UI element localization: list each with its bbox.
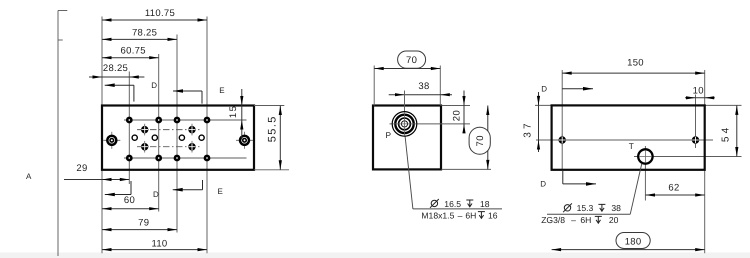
dim 38 xyxy=(389,94,452,96)
svg-text:–: – xyxy=(458,210,463,220)
ext right edge bottom xyxy=(704,170,706,253)
svg-text:M18x1.5: M18x1.5 xyxy=(421,210,454,220)
dim 54 (vertical right) xyxy=(736,105,738,156)
dim 15 (vertical, right of left view) xyxy=(241,89,243,140)
dim 78.25 xyxy=(102,38,177,40)
mounting hole right (counterbore) xyxy=(236,139,253,141)
dim 180 (balloon) xyxy=(552,249,705,251)
middle view block outline xyxy=(373,106,441,170)
svg-text:180: 180 xyxy=(625,236,642,247)
svg-text:D: D xyxy=(153,190,159,199)
port circle 2 xyxy=(152,135,157,140)
svg-text:29: 29 xyxy=(76,163,87,174)
svg-text:78.25: 78.25 xyxy=(132,27,157,38)
svg-text:ZG3/8: ZG3/8 xyxy=(541,215,565,225)
scanner shading band bottom xyxy=(0,253,750,258)
T crosshair tick xyxy=(634,156,657,158)
ext left edge bottom xyxy=(101,170,103,253)
right view block outline xyxy=(552,105,705,169)
svg-text:10: 10 xyxy=(693,86,704,97)
row line top holes xyxy=(124,119,247,121)
svg-text:15.3: 15.3 xyxy=(577,203,594,213)
callout T: dia 15.3 depth 38 / ZG3/8-6H depth 20 xyxy=(564,205,570,211)
ext right edge top xyxy=(704,70,706,105)
ext left edge top xyxy=(101,17,103,106)
svg-text:60: 60 xyxy=(124,195,135,206)
svg-text:E: E xyxy=(219,86,225,95)
svg-text:110: 110 xyxy=(151,239,167,250)
leader T to callout xyxy=(630,164,642,215)
ext col2 top xyxy=(158,54,160,106)
col2 line through block xyxy=(158,106,160,212)
svg-text:70: 70 xyxy=(475,135,486,147)
col1 line through block xyxy=(128,106,130,185)
svg-text:T: T xyxy=(629,141,634,151)
svg-text:16: 16 xyxy=(488,210,498,220)
ext col3 top xyxy=(176,35,178,106)
svg-text:D: D xyxy=(541,85,547,94)
cutting arrow D top xyxy=(105,84,134,86)
dim 79 xyxy=(102,229,177,231)
dim 55.5 (overall height left view) xyxy=(254,105,284,107)
dim 110 xyxy=(102,249,207,251)
svg-text:28.25: 28.25 xyxy=(103,63,128,74)
cutting arrow E bottom xyxy=(202,180,204,190)
svg-text:15: 15 xyxy=(228,105,239,118)
svg-text:A: A xyxy=(26,172,32,181)
T vertical centre line xyxy=(644,146,646,201)
ext col1 top xyxy=(128,72,130,106)
dim 29 xyxy=(64,179,129,181)
col3 line through block xyxy=(176,106,178,233)
cluster pin hole upper-left xyxy=(144,124,146,136)
callout shelf T xyxy=(547,213,630,215)
dim 20 (middle view) xyxy=(442,105,471,107)
cluster pin hole upper-right xyxy=(191,124,193,136)
svg-text:38: 38 xyxy=(418,81,429,92)
top row bolt hole 4 xyxy=(204,117,211,124)
dim 150 xyxy=(562,72,705,74)
port T xyxy=(638,149,652,163)
mounting hole left (counterbore) xyxy=(103,139,120,141)
port P centre horizontal line xyxy=(390,123,471,125)
dim 37 xyxy=(538,92,540,152)
svg-text:6H: 6H xyxy=(580,215,591,225)
bottom row bolt hole 2 xyxy=(155,155,162,162)
ext col4 top xyxy=(206,17,208,106)
right hole col in block xyxy=(695,105,697,148)
bottom row bolt hole 3 xyxy=(174,155,181,162)
right view hole right xyxy=(695,134,697,146)
dim 28.25 xyxy=(89,76,144,78)
dim 70 top (middle view) xyxy=(373,66,375,106)
svg-text:D: D xyxy=(151,81,157,90)
left view block outline xyxy=(102,106,254,170)
svg-text:20: 20 xyxy=(609,215,619,225)
section line A (far left) xyxy=(57,11,59,257)
holes centre line xyxy=(536,139,713,141)
top row bolt hole 3 xyxy=(174,117,181,124)
svg-text:37: 37 xyxy=(523,120,534,138)
cluster pin hole lower-left xyxy=(144,141,146,153)
cluster pin hole lower-right xyxy=(191,141,193,153)
svg-text:–: – xyxy=(571,215,576,225)
dim 60.75 xyxy=(102,57,159,59)
dim 70 right (middle view, vertical) xyxy=(442,168,492,170)
centre dash-dot lines of port cluster xyxy=(137,129,200,131)
svg-text:54: 54 xyxy=(721,125,732,143)
bottom row bolt hole 4 xyxy=(204,155,211,162)
svg-text:62: 62 xyxy=(668,183,679,194)
row line bottom holes xyxy=(124,157,247,159)
ext left hole col top xyxy=(561,70,563,105)
dim 62 xyxy=(646,194,705,196)
cutting arrow D bottom xyxy=(130,181,132,195)
right view hole left xyxy=(561,134,563,146)
svg-text:38: 38 xyxy=(611,203,621,213)
top row bolt hole 2 xyxy=(155,117,162,124)
cutting arrow E top xyxy=(173,90,202,92)
svg-text:16.5: 16.5 xyxy=(444,199,461,209)
svg-text:110.75: 110.75 xyxy=(145,8,175,19)
svg-text:55.5: 55.5 xyxy=(266,115,278,142)
dim 10 xyxy=(685,97,715,99)
left hole col through block xyxy=(561,105,563,169)
port circle 1 xyxy=(132,135,137,140)
cutting arrow D bottom (right view) xyxy=(562,170,564,184)
ext right hole col top xyxy=(695,95,697,106)
callout P: dia 16.5 depth 18 / M18x1.5-6H depth 16 xyxy=(431,200,437,206)
cutting arrow D top (right view) xyxy=(562,88,593,90)
svg-text:20: 20 xyxy=(452,110,463,122)
port P xyxy=(392,112,417,137)
svg-text:150: 150 xyxy=(627,58,644,69)
svg-text:6H: 6H xyxy=(465,210,476,220)
T horizontal centre line xyxy=(653,156,742,158)
svg-text:D: D xyxy=(540,180,546,189)
svg-text:70: 70 xyxy=(406,55,417,66)
svg-text:P: P xyxy=(386,130,392,140)
ext top-right for 54 xyxy=(705,104,742,106)
svg-text:E: E xyxy=(218,187,224,196)
dim 110.75 xyxy=(102,19,207,21)
svg-text:79: 79 xyxy=(138,217,149,228)
svg-text:60.75: 60.75 xyxy=(121,46,146,57)
col4 line through block xyxy=(206,106,208,254)
port circle 4 xyxy=(199,135,204,140)
port P vertical centre line + leader xyxy=(404,91,406,137)
dim 60 xyxy=(102,208,159,210)
bottom row bolt hole 1 xyxy=(126,155,133,162)
ext top-left for 37 xyxy=(535,104,552,106)
top row bolt hole 1 xyxy=(126,117,133,124)
svg-text:18: 18 xyxy=(480,199,490,209)
port circle 3 xyxy=(179,135,184,140)
